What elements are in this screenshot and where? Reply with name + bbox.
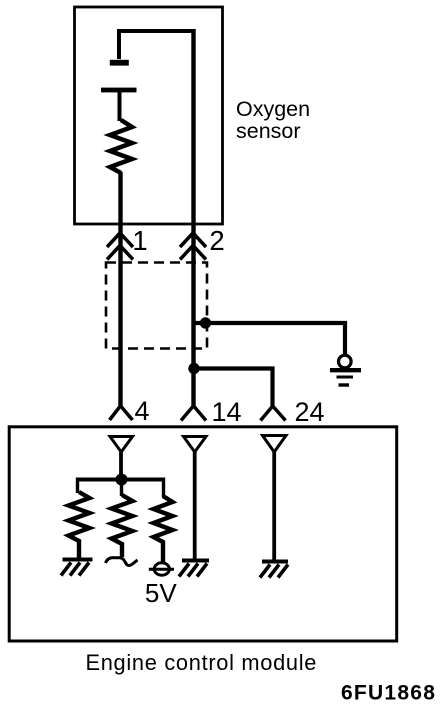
- connector arrows pin 1: [107, 233, 133, 260]
- connector arrow pin 4: [110, 406, 133, 420]
- connector arrow pin 24: [261, 406, 286, 421]
- connector arrows pin 2: [180, 233, 206, 260]
- junction dot bus: [116, 474, 128, 486]
- sensor cell bottom plate: [101, 88, 137, 93]
- wire: sensor pin 1 vertical: [118, 172, 122, 406]
- resistor left: [69, 492, 90, 559]
- wire: resistor bus: [78, 478, 164, 482]
- resistor middle: [112, 495, 133, 557]
- svg-text:6FU1868: 6FU1868: [341, 682, 436, 705]
- svg-text:4: 4: [134, 396, 149, 426]
- svg-text:14: 14: [211, 397, 241, 427]
- ground pin 14: [179, 561, 209, 577]
- wire: to body ground: [194, 323, 346, 355]
- wire: cell bottom lead: [118, 92, 122, 121]
- ground pin 24: [260, 562, 288, 578]
- wire: right branch lead: [162, 478, 165, 498]
- wire: pin 14 to ground: [193, 452, 197, 559]
- 5V supply symbol: [149, 563, 174, 575]
- receptacle triangle pin 4: [110, 437, 133, 453]
- engine control module box: [9, 427, 397, 641]
- svg-text:1: 1: [132, 225, 147, 256]
- body ground symbol: [330, 355, 361, 385]
- receptacle triangle pin 24: [263, 436, 287, 453]
- sensor cell top plate: [110, 60, 129, 66]
- wire: middle branch lead: [120, 480, 123, 497]
- wire: sensor cell top lead: [119, 31, 194, 59]
- resistor right: [154, 496, 173, 562]
- svg-text:Oxygen: Oxygen: [236, 97, 310, 121]
- connector dashed box: [106, 263, 207, 349]
- oxygen sensor box: [75, 7, 223, 224]
- wire: left branch lead: [76, 478, 79, 494]
- svg-text:Engine control module: Engine control module: [86, 650, 318, 675]
- connector arrow pin 14: [181, 406, 206, 421]
- wire: to pin 24: [194, 369, 273, 407]
- junction dot lower: [188, 363, 199, 374]
- svg-text:sensor: sensor: [236, 119, 301, 143]
- wire: pin 24 to ground: [272, 452, 276, 560]
- squiggle end of middle resistor: [106, 558, 138, 566]
- ground left: [61, 560, 93, 576]
- label: Oxygen sensor: [236, 97, 310, 143]
- receptacle triangle pin 14: [184, 437, 207, 453]
- svg-text:24: 24: [294, 397, 324, 427]
- wire: sensor pin 2 vertical: [191, 29, 195, 406]
- wire: pin 4 to bus: [119, 452, 123, 478]
- svg-text:5V: 5V: [145, 578, 177, 608]
- svg-text:2: 2: [209, 225, 224, 256]
- junction dot upper: [200, 317, 211, 328]
- resistor inside sensor: [110, 120, 132, 173]
